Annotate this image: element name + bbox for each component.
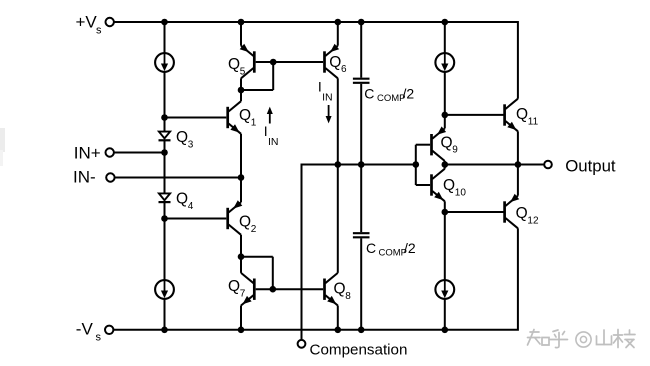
svg-text:Q: Q [176,191,188,208]
svg-text:s: s [96,24,102,36]
svg-text:4: 4 [188,201,194,212]
svg-text:Q: Q [443,177,455,194]
svg-text:C: C [366,240,376,256]
svg-text:Q: Q [334,281,346,298]
svg-text:s: s [96,332,102,344]
svg-text:/2: /2 [403,86,415,102]
svg-text:/2: /2 [404,240,416,256]
svg-text:12: 12 [527,216,539,227]
svg-text:-V: -V [76,320,94,339]
svg-text:IN: IN [268,136,279,148]
svg-text:Output: Output [565,156,616,175]
svg-text:IN+: IN+ [74,143,101,162]
svg-text:9: 9 [452,145,458,156]
svg-text:C: C [364,86,374,102]
svg-text:Q: Q [441,134,453,151]
svg-text:+V: +V [76,12,98,31]
svg-text:1: 1 [251,117,257,128]
svg-text:Q: Q [516,106,528,123]
svg-text:Compensation: Compensation [310,342,408,359]
svg-text:Q: Q [228,278,240,295]
svg-text:Q: Q [516,205,528,222]
svg-text:Q: Q [228,56,240,73]
svg-text:IN: IN [322,91,333,103]
svg-text:11: 11 [528,116,539,127]
svg-text:3: 3 [188,139,194,150]
svg-text:2: 2 [251,224,257,235]
svg-text:Q: Q [329,54,341,71]
svg-text:Q: Q [239,214,251,231]
svg-text:COMP: COMP [377,93,406,104]
svg-text:8: 8 [345,291,351,302]
svg-text:10: 10 [455,187,467,198]
svg-text:5: 5 [240,66,246,77]
svg-text:6: 6 [341,64,347,75]
svg-text:Q: Q [239,107,251,124]
svg-text:Q: Q [176,129,188,146]
svg-text:7: 7 [240,288,246,299]
svg-text:COMP: COMP [379,247,408,258]
svg-text:IN-: IN- [73,167,96,186]
